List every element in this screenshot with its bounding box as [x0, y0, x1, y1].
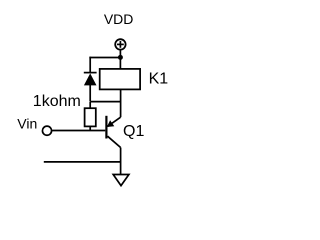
transistor Q1 base bar	[105, 116, 107, 139]
svg-text:K1: K1	[149, 71, 169, 88]
ground symbol	[113, 175, 129, 186]
input terminal Vin circle	[42, 126, 51, 135]
diode D1 cathode bar	[84, 72, 97, 74]
transistor Q1 arrowhead (arrow pointing into base bar)	[107, 120, 115, 127]
transistor Q1 emitter diagonal	[108, 136, 121, 147]
junction node dot	[118, 55, 123, 60]
power terminal VDD (circle with plus)	[115, 39, 125, 49]
svg-text:Vin: Vin	[17, 115, 37, 131]
wire diode bottom to relay lead	[90, 101, 120, 103]
wire collector diagonal	[108, 117, 121, 126]
wire ground horizontal stub	[44, 161, 121, 163]
resistor R1 body	[85, 108, 96, 126]
wire node to diode top	[89, 57, 120, 59]
svg-text:VDD: VDD	[104, 11, 134, 27]
wire node to relay top	[119, 57, 121, 69]
wire diode bottom lead	[89, 85, 91, 102]
wire resistor top lead	[89, 102, 91, 108]
relay coil K1 body	[100, 69, 140, 90]
wire diode top lead	[89, 57, 91, 73]
wire VDD stem	[119, 50, 121, 57]
svg-text:1kohm: 1kohm	[33, 93, 81, 110]
diode D1 triangle (anode, pointing up)	[84, 73, 97, 85]
svg-text:Q1: Q1	[123, 123, 144, 140]
wire relay bottom lead	[120, 89, 122, 117]
wire resistor bottom lead	[89, 126, 91, 130]
wire Vin to base	[52, 130, 105, 132]
wire emitter vertical	[120, 148, 122, 175]
